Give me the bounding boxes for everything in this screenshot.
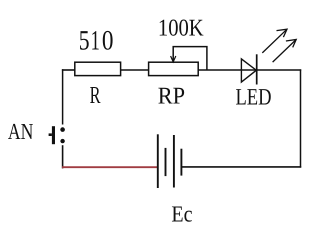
wire right vertical side	[300, 69, 302, 167]
wire RP to right corner (passes through LED symbol)	[198, 69, 301, 71]
potentiometer RP wiper arm wire	[173, 47, 207, 70]
svg-text:AN: AN	[8, 119, 34, 144]
LED light emission arrow 1 head	[277, 29, 288, 37]
potentiometer RP body	[149, 62, 199, 75]
LED cathode bar	[256, 54, 258, 84]
wire left vertical upper (to switch)	[62, 69, 64, 124]
LED light emission arrow 1 shaft	[262, 29, 287, 53]
battery Ec plate 3 (long)	[173, 135, 175, 188]
wire between R and RP	[121, 69, 149, 71]
svg-text:R: R	[90, 82, 101, 109]
svg-text:RP: RP	[158, 83, 185, 109]
svg-text:0: 0	[102, 25, 114, 56]
battery Ec plate 1 (long)	[157, 134, 159, 188]
wire top-left horizontal (node to resistor R)	[62, 69, 75, 71]
switch AN lower contact dot	[60, 139, 64, 143]
svg-text:1: 1	[91, 25, 100, 56]
LED triangle (anode)	[241, 59, 256, 82]
svg-text:100K: 100K	[158, 16, 204, 42]
LED light emission arrow 2 shaft	[273, 40, 297, 63]
battery Ec plate 4 (short)	[180, 149, 182, 176]
LED light emission arrow 2 head	[286, 40, 296, 48]
wire bottom-right (battery to right corner)	[181, 166, 301, 168]
svg-text:5: 5	[79, 25, 90, 56]
svg-text:LED: LED	[236, 85, 272, 111]
wire left vertical lower (switch to bottom)	[62, 145, 64, 168]
battery Ec plate 2 (short)	[165, 148, 167, 176]
svg-text:Ec: Ec	[171, 202, 192, 227]
resistor R body	[75, 62, 121, 75]
switch AN actuator nub	[49, 133, 52, 136]
switch AN upper contact dot	[60, 127, 65, 132]
wire bottom-left red (switch to battery)	[62, 166, 158, 168]
switch AN actuator bar	[52, 126, 55, 144]
potentiometer RP wiper arrowhead	[171, 56, 176, 62]
